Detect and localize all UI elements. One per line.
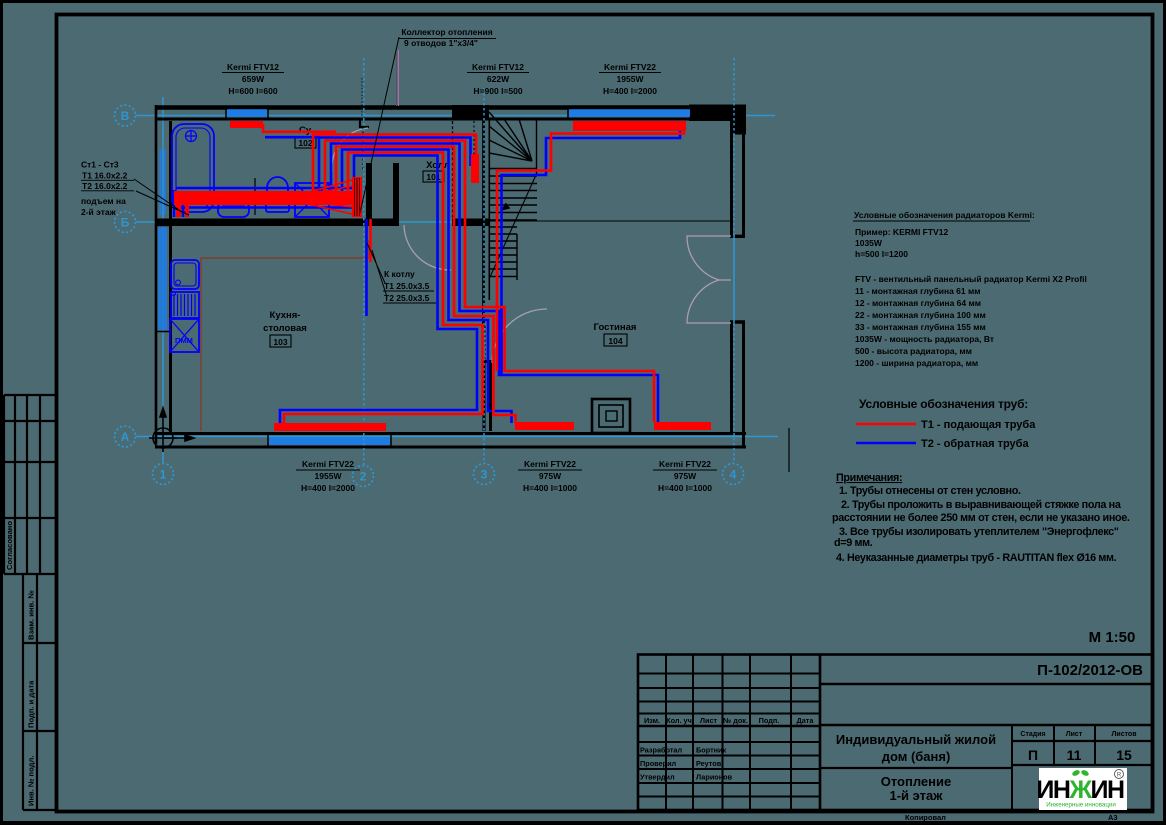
svg-text:1035W - мощность радиатора, Вт: 1035W - мощность радиатора, Вт (855, 334, 994, 344)
svg-text:Т1 16.0х2.2: Т1 16.0х2.2 (82, 171, 128, 181)
svg-text:1200 - ширина радиатора, мм: 1200 - ширина радиатора, мм (855, 358, 978, 368)
svg-text:659W: 659W (242, 74, 265, 84)
svg-text:Т1 25.0х3.5: Т1 25.0х3.5 (384, 281, 430, 291)
svg-text:Реутов: Реутов (696, 759, 722, 768)
svg-text:В: В (121, 109, 130, 123)
svg-text:Пример: KERMI FTV12: Пример: KERMI FTV12 (855, 227, 948, 237)
svg-text:П-102/2012-ОВ: П-102/2012-ОВ (1037, 662, 1143, 679)
svg-text:622W: 622W (487, 74, 510, 84)
svg-text:1955W: 1955W (315, 471, 343, 481)
svg-text:103: 103 (273, 337, 287, 347)
svg-text:Kermi FTV22: Kermi FTV22 (659, 459, 711, 469)
svg-text:Условные обозначения радиаторо: Условные обозначения радиаторов Kermi: (854, 210, 1035, 220)
svg-text:Коллектор отопления: Коллектор отопления (401, 27, 492, 37)
svg-text:дом (баня): дом (баня) (882, 749, 951, 764)
svg-text:Индивидуальный жилой: Индивидуальный жилой (836, 732, 996, 747)
svg-text:Изм.: Изм. (644, 716, 660, 725)
svg-text:подъем на: подъем на (81, 196, 126, 206)
svg-text:ИНЖИН: ИНЖИН (1036, 776, 1124, 804)
svg-text:Kermi FTV22: Kermi FTV22 (524, 459, 576, 469)
svg-text:Бортник: Бортник (696, 746, 727, 755)
svg-text:Лист: Лист (1066, 731, 1083, 738)
svg-text:Кол. уч.: Кол. уч. (666, 716, 694, 725)
svg-text:H=400 l=2000: H=400 l=2000 (301, 483, 355, 493)
svg-text:Kermi FTV12: Kermi FTV12 (472, 62, 524, 72)
svg-text:Т1 - подающая труба: Т1 - подающая труба (921, 419, 1036, 431)
svg-text:Подп.: Подп. (759, 716, 780, 725)
svg-text:Взам. инв. №: Взам. инв. № (27, 590, 36, 640)
svg-text:Гостиная: Гостиная (594, 322, 637, 333)
svg-text:К котлу: К котлу (384, 269, 415, 279)
svg-text:H=900 l=500: H=900 l=500 (473, 86, 522, 96)
svg-text:Т2 25.0х3.5: Т2 25.0х3.5 (384, 293, 430, 303)
svg-text:FTV - вентильный панельный рад: FTV - вентильный панельный радиатор Kerm… (855, 274, 1087, 284)
svg-text:Инв. № подл.: Инв. № подл. (27, 756, 36, 806)
svg-text:Проверил: Проверил (640, 759, 677, 768)
svg-text:Т2 16.0х2.2: Т2 16.0х2.2 (82, 181, 128, 191)
svg-text:Kermi FTV22: Kermi FTV22 (604, 62, 656, 72)
svg-text:Листов: Листов (1111, 731, 1137, 738)
svg-text:104: 104 (608, 336, 622, 346)
svg-text:500 - высота радиатора, мм: 500 - высота радиатора, мм (855, 346, 972, 356)
svg-text:Условные обозначения труб:: Условные обозначения труб: (859, 397, 1028, 411)
svg-text:1-й этаж: 1-й этаж (890, 788, 944, 803)
svg-text:2. Трубы проложить в выравнива: 2. Трубы проложить в выравнивающей стяжк… (841, 499, 1122, 511)
svg-text:15: 15 (1116, 747, 1132, 763)
svg-text:Утвердил: Утвердил (640, 773, 675, 782)
svg-text:2-й этаж: 2-й этаж (81, 207, 117, 217)
svg-text:Отопление: Отопление (881, 774, 952, 789)
svg-text:H=400 l=1000: H=400 l=1000 (658, 483, 712, 493)
svg-text:Ларионов: Ларионов (696, 773, 733, 782)
svg-text:3. Все трубы изолировать утепл: 3. Все трубы изолировать утеплителем "Эн… (839, 526, 1119, 538)
svg-text:П: П (1028, 747, 1038, 763)
svg-text:Б: Б (121, 216, 130, 230)
svg-text:2: 2 (360, 470, 367, 484)
svg-text:H=600 l=600: H=600 l=600 (228, 86, 277, 96)
svg-text:1955W: 1955W (617, 74, 645, 84)
svg-text:11 - монтажная глубина 61 мм: 11 - монтажная глубина 61 мм (855, 286, 981, 296)
svg-text:4: 4 (730, 468, 737, 482)
svg-text:ПММ: ПММ (175, 336, 193, 345)
svg-text:H=400 l=2000: H=400 l=2000 (603, 86, 657, 96)
svg-text:d=9 мм.: d=9 мм. (834, 537, 873, 549)
svg-text:Ст1 - Ст3: Ст1 - Ст3 (81, 160, 119, 170)
svg-text:1: 1 (160, 468, 167, 482)
svg-text:Лист: Лист (700, 716, 718, 725)
svg-text:Согласовано: Согласовано (5, 521, 14, 570)
svg-text:Kermi FTV22: Kermi FTV22 (302, 459, 354, 469)
svg-text:Примечания:: Примечания: (836, 472, 902, 484)
svg-text:9 отводов 1"х3/4": 9 отводов 1"х3/4" (404, 38, 478, 48)
svg-text:Стадия: Стадия (1020, 731, 1045, 738)
svg-text:А: А (121, 430, 130, 444)
svg-text:М 1:50: М 1:50 (1089, 629, 1136, 646)
svg-text:33 - монтажная глубина 155 мм: 33 - монтажная глубина 155 мм (855, 322, 986, 332)
svg-text:H=400 l=1000: H=400 l=1000 (523, 483, 577, 493)
svg-text:4. Неуказанные диаметры труб -: 4. Неуказанные диаметры труб - RAUTITAN … (836, 552, 1117, 564)
svg-text:R: R (1117, 773, 1122, 779)
svg-text:Т2 - обратная труба: Т2 - обратная труба (921, 438, 1029, 450)
svg-text:А3: А3 (1108, 813, 1118, 822)
svg-text:расстоянии не более 250 мм от: расстоянии не более 250 мм от стен, если… (832, 512, 1130, 524)
svg-text:102: 102 (298, 138, 312, 148)
svg-text:столовая: столовая (263, 323, 307, 334)
svg-text:975W: 975W (674, 471, 697, 481)
svg-text:Копировал: Копировал (905, 813, 946, 822)
svg-text:22 - монтажная глубина 100 мм: 22 - монтажная глубина 100 мм (855, 310, 986, 320)
svg-text:№ док.: № док. (723, 716, 748, 725)
svg-text:11: 11 (1067, 747, 1082, 763)
svg-text:1. Трубы отнесены от стен усло: 1. Трубы отнесены от стен условно. (839, 485, 1021, 497)
svg-text:Дата: Дата (797, 716, 815, 725)
svg-text:975W: 975W (539, 471, 562, 481)
svg-text:12 - монтажная глубина 64 мм: 12 - монтажная глубина 64 мм (855, 298, 981, 308)
svg-text:Разработал: Разработал (640, 746, 682, 755)
svg-text:Кухня-: Кухня- (270, 310, 301, 321)
svg-text:Инженерные инновации: Инженерные инновации (1046, 802, 1116, 809)
svg-text:Kermi FTV12: Kermi FTV12 (227, 62, 279, 72)
svg-text:1035W: 1035W (855, 238, 883, 248)
svg-text:3: 3 (481, 468, 488, 482)
svg-text:h=500 l=1200: h=500 l=1200 (855, 249, 908, 259)
svg-text:Подп. и дата: Подп. и дата (27, 680, 36, 728)
